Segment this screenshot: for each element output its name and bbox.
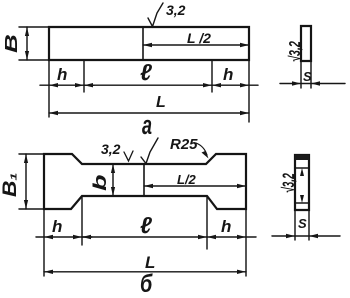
- svg-text:L: L: [156, 94, 166, 111]
- dimension h left specimen b: [36, 236, 92, 238]
- svg-text:б: б: [140, 269, 153, 298]
- dimension l specimen b: [82, 236, 207, 238]
- roughness 3.2 strip a: [286, 41, 303, 62]
- dimension h right specimen b: [207, 236, 256, 238]
- svg-text:h: h: [52, 217, 62, 236]
- extension lines below specimen b: [44, 196, 246, 276]
- dimension h left specimen a: [40, 84, 94, 86]
- svg-text:ℓ: ℓ: [140, 212, 152, 238]
- svg-text:S: S: [298, 216, 307, 231]
- dimension B extension lines: [19, 27, 49, 60]
- dimension B1 extension lines: [19, 154, 44, 209]
- svg-text:L /2: L /2: [187, 30, 211, 46]
- specimen a mid line: [142, 27, 144, 60]
- svg-text:S: S: [303, 69, 312, 84]
- svg-text:√3,2: √3,2: [278, 173, 297, 193]
- dimension s line strip b: [272, 235, 340, 237]
- specimen b outline: [44, 154, 246, 209]
- strip b top cap: [295, 155, 309, 160]
- side view strip b: [295, 155, 309, 210]
- svg-text:h: h: [221, 217, 231, 236]
- dimension b line: [112, 164, 114, 196]
- extension lines below specimen a: [49, 60, 249, 122]
- side view strip a: [301, 26, 311, 61]
- svg-text:b: b: [90, 175, 110, 191]
- roughness 3.2 strip b: [278, 173, 297, 193]
- dimension s strip b extensions: [295, 210, 309, 240]
- dimension L specimen a: [49, 112, 249, 114]
- roughness mark 3.2 on specimen a: [148, 3, 163, 27]
- svg-text:В₁: В₁: [0, 173, 21, 197]
- svg-text:√3,2: √3,2: [286, 41, 303, 62]
- svg-text:3,2: 3,2: [166, 2, 186, 18]
- dimension B1 line: [25, 154, 27, 209]
- svg-text:В: В: [1, 34, 21, 53]
- svg-text:3,2: 3,2: [101, 141, 121, 157]
- dimension L/2 specimen a: [143, 44, 249, 46]
- svg-text:R25: R25: [170, 136, 198, 153]
- svg-text:L/2: L/2: [177, 172, 197, 187]
- svg-text:h: h: [57, 65, 67, 84]
- dimension L/2 specimen b: [144, 185, 246, 187]
- dimension h right specimen a: [212, 84, 258, 86]
- strip b gauge lines: [295, 168, 309, 203]
- svg-text:h: h: [223, 65, 233, 84]
- svg-text:а: а: [142, 111, 152, 140]
- dimension B line: [26, 27, 28, 60]
- dimension L specimen b: [44, 271, 246, 273]
- strip b internal arrows: [300, 168, 304, 203]
- dimension B arrows: [25, 27, 29, 60]
- svg-text:ℓ: ℓ: [140, 59, 152, 85]
- dimension S line strip a: [280, 83, 345, 85]
- dimension S strip a extension: [301, 61, 311, 88]
- dimension l specimen a: [84, 84, 212, 86]
- specimen a outline: [49, 27, 249, 60]
- specimen b mid line: [143, 164, 145, 196]
